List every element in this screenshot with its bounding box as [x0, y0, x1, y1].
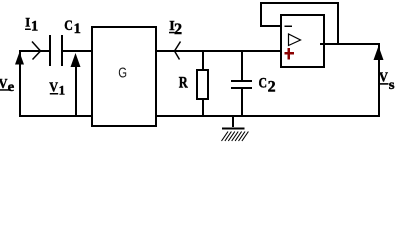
svg-text:C: C	[64, 18, 73, 34]
svg-text:R: R	[179, 74, 189, 91]
svg-text:1: 1	[59, 83, 66, 98]
svg-text:1: 1	[74, 21, 81, 37]
svg-text:e: e	[8, 80, 15, 95]
svg-text:I: I	[25, 16, 30, 30]
svg-text:G: G	[118, 65, 127, 82]
svg-text:1: 1	[31, 19, 38, 35]
svg-text:2: 2	[268, 79, 276, 96]
svg-text:2: 2	[174, 21, 182, 38]
svg-text:s: s	[389, 78, 395, 93]
svg-text:C: C	[259, 76, 268, 92]
